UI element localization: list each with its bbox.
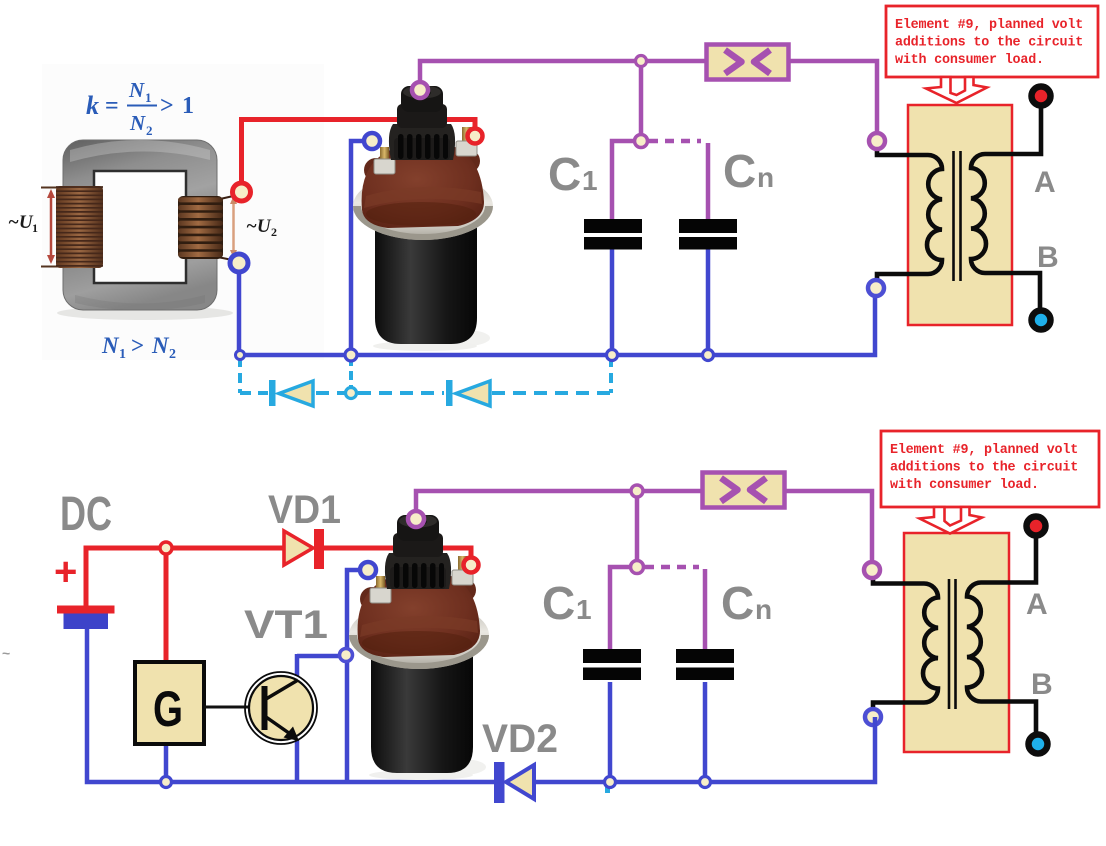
svg-text:n: n <box>755 594 772 625</box>
svg-text:1: 1 <box>182 93 194 119</box>
svg-text:with consumer load.: with consumer load. <box>890 478 1039 493</box>
svg-text:C: C <box>548 148 581 200</box>
svg-text:N: N <box>101 333 120 358</box>
svg-text:B: B <box>1031 668 1053 701</box>
svg-text:DC: DC <box>60 488 112 541</box>
svg-text:A: A <box>1034 166 1056 199</box>
svg-text:N: N <box>151 333 170 358</box>
svg-text:A: A <box>1026 588 1048 621</box>
svg-text:~U: ~U <box>246 216 272 237</box>
svg-text:1: 1 <box>119 347 126 362</box>
svg-text:N: N <box>129 111 146 135</box>
svg-text:Element #9, planned volt: Element #9, planned volt <box>895 18 1083 33</box>
svg-text:VT1: VT1 <box>244 603 328 647</box>
svg-text:~: ~ <box>2 645 10 661</box>
svg-text:C: C <box>721 577 754 629</box>
svg-text:C: C <box>723 145 756 197</box>
svg-text:B: B <box>1037 241 1059 274</box>
svg-text:+: + <box>54 550 77 594</box>
svg-text:VD1: VD1 <box>268 488 341 532</box>
svg-text:2: 2 <box>146 123 153 138</box>
svg-text:>: > <box>131 333 144 358</box>
svg-text:additions to the circuit: additions to the circuit <box>895 36 1083 51</box>
svg-text:2: 2 <box>271 225 277 239</box>
svg-text:C: C <box>542 577 575 629</box>
svg-text:1: 1 <box>32 221 38 235</box>
svg-text:n: n <box>757 162 774 193</box>
svg-text:1: 1 <box>582 165 598 196</box>
svg-text:2: 2 <box>169 347 176 362</box>
svg-text:1: 1 <box>576 594 592 625</box>
svg-text:=: = <box>105 93 119 119</box>
svg-text:Element #9, planned volt: Element #9, planned volt <box>890 443 1078 458</box>
svg-text:G: G <box>153 681 183 737</box>
svg-text:~U: ~U <box>8 212 34 233</box>
svg-text:k: k <box>86 91 99 120</box>
svg-text:additions to the circuit: additions to the circuit <box>890 461 1078 476</box>
svg-text:VD2: VD2 <box>482 717 558 761</box>
svg-text:with consumer load.: with consumer load. <box>895 53 1044 68</box>
svg-text:1: 1 <box>145 90 152 105</box>
svg-text:N: N <box>128 78 145 102</box>
svg-text:>: > <box>160 93 174 119</box>
